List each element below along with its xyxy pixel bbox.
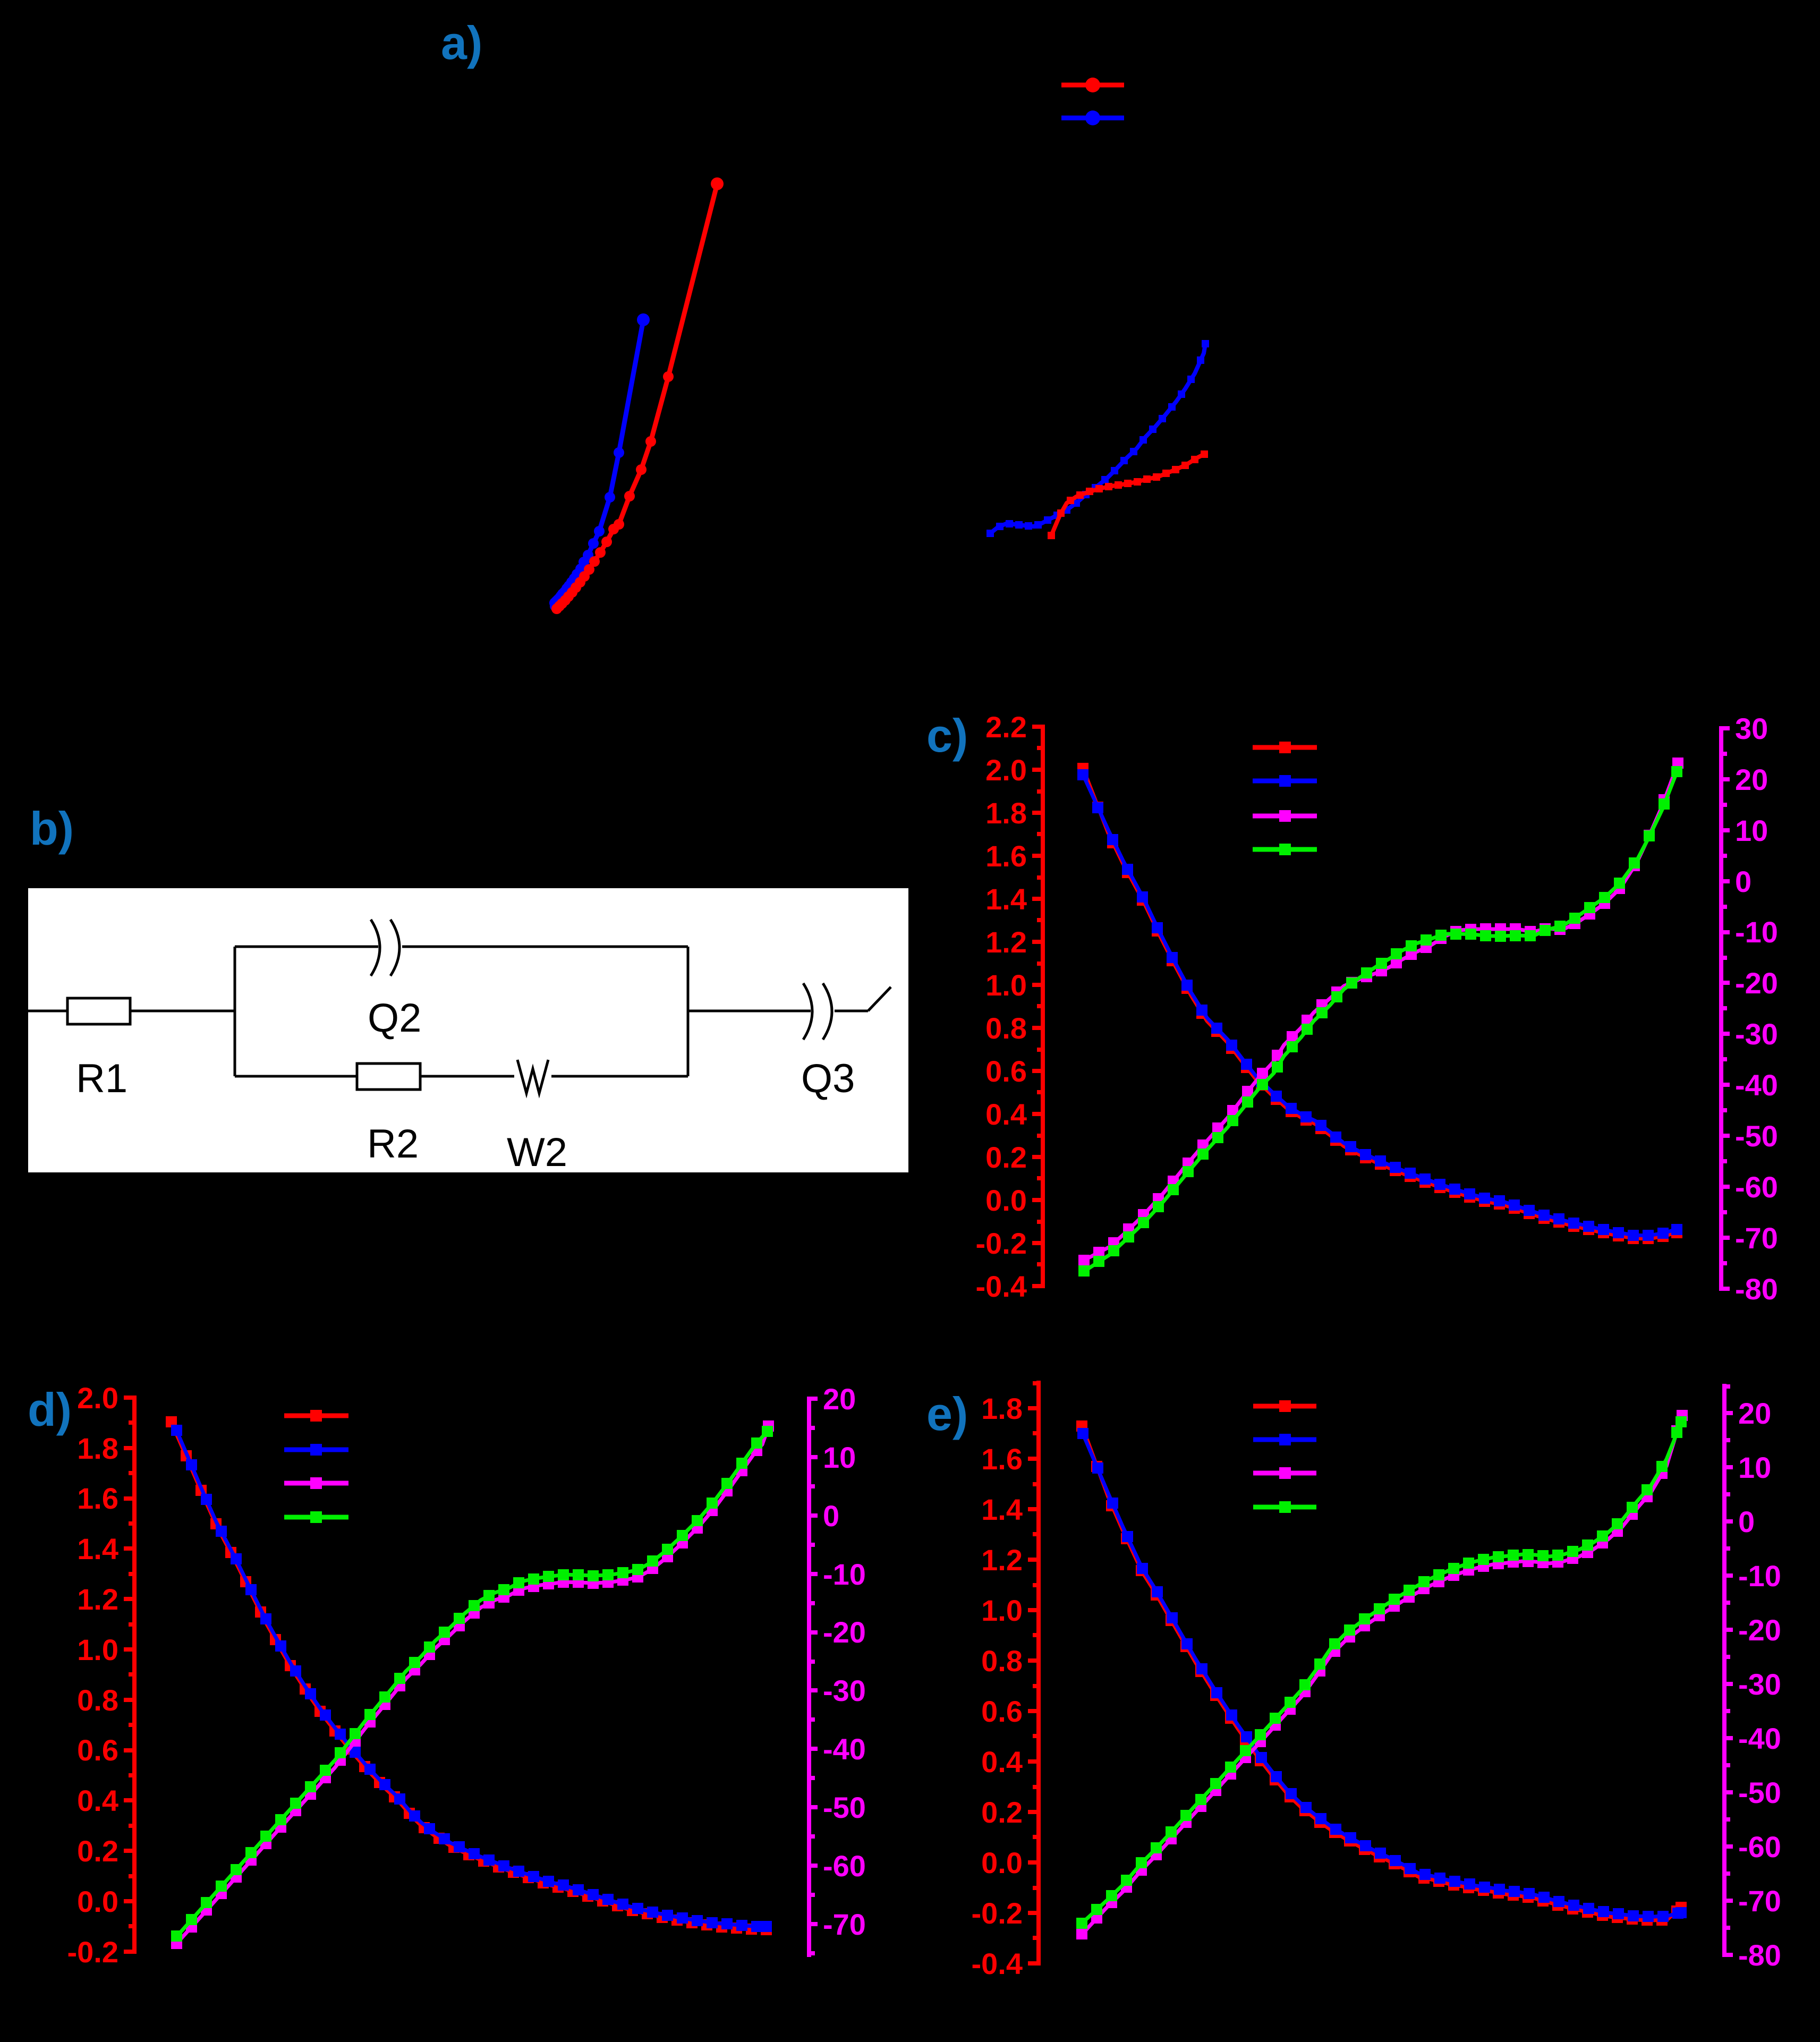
svg-text:1.2: 1.2 (985, 925, 1027, 959)
Warburg W2 symbol (517, 1060, 548, 1093)
svg-text:-30: -30 (1738, 1667, 1781, 1701)
panel d legend (284, 1410, 348, 1422)
svg-text:c): c) (926, 709, 968, 762)
svg-text:-0.4: -0.4 (976, 1270, 1027, 1303)
svg-text:-70: -70 (1735, 1221, 1778, 1255)
svg-text:0.8: 0.8 (77, 1683, 118, 1717)
wire W2 to right junction (551, 1075, 688, 1078)
svg-text:-20: -20 (1735, 966, 1778, 1000)
svg-text:Q3: Q3 (801, 1056, 855, 1101)
svg-text:-20: -20 (823, 1615, 866, 1649)
panel a right plot: blue curve (986, 340, 1209, 537)
svg-text:0.6: 0.6 (77, 1733, 118, 1767)
svg-text:0.6: 0.6 (981, 1695, 1023, 1728)
svg-text:1.4: 1.4 (981, 1493, 1023, 1526)
svg-text:10: 10 (1738, 1451, 1771, 1484)
svg-text:30: 30 (1735, 712, 1768, 745)
svg-text:W2: W2 (507, 1130, 567, 1175)
svg-text:-0.2: -0.2 (976, 1227, 1027, 1260)
svg-text:0: 0 (823, 1499, 839, 1533)
svg-text:20: 20 (1735, 763, 1768, 796)
wire right junction to Q3 (688, 1010, 811, 1013)
svg-text:e): e) (926, 1388, 968, 1440)
svg-text:-50: -50 (1735, 1119, 1778, 1153)
svg-text:-60: -60 (1738, 1830, 1781, 1864)
panel d magenta curve (dV/dQ) (171, 1420, 774, 1949)
label R1 (76, 1056, 127, 1101)
circuit white background box (28, 888, 908, 1172)
svg-text:a): a) (441, 16, 482, 69)
svg-text:0.4: 0.4 (77, 1784, 118, 1817)
svg-text:-0.4: -0.4 (972, 1947, 1023, 1980)
svg-text:-50: -50 (823, 1791, 866, 1824)
svg-text:1.4: 1.4 (985, 882, 1027, 916)
svg-text:20: 20 (823, 1382, 856, 1416)
panel e legend (1253, 1400, 1316, 1412)
panel c red curve (discharge) (1077, 763, 1682, 1244)
panel e red curve (discharge) (1076, 1420, 1687, 1926)
label Q3 (801, 1056, 855, 1101)
node: right vertical junction of parallel branch (687, 947, 690, 1076)
svg-text:1.8: 1.8 (981, 1392, 1023, 1425)
svg-text:-20: -20 (1738, 1613, 1781, 1647)
panel d blue curve (discharge) (171, 1425, 772, 1932)
svg-text:0: 0 (1735, 865, 1751, 898)
svg-text:-40: -40 (1738, 1722, 1781, 1755)
panel c legend (1253, 742, 1317, 753)
svg-text:-80: -80 (1735, 1272, 1778, 1306)
panel a left plot: blue curve end marker (637, 313, 650, 326)
svg-text:b): b) (30, 802, 74, 855)
svg-text:-30: -30 (1735, 1017, 1778, 1051)
svg-text:1.2: 1.2 (77, 1582, 118, 1616)
svg-text:1.2: 1.2 (981, 1543, 1023, 1577)
svg-text:1.0: 1.0 (985, 968, 1027, 1002)
panel d right axis (magenta) (809, 1382, 866, 1957)
svg-text:1.6: 1.6 (981, 1442, 1023, 1476)
svg-text:-40: -40 (823, 1732, 866, 1766)
panel e left axis (red) (972, 1381, 1039, 1980)
svg-text:-0.2: -0.2 (67, 1935, 119, 1969)
svg-text:2.0: 2.0 (77, 1381, 118, 1415)
svg-text:10: 10 (823, 1441, 856, 1474)
svg-text:0.8: 0.8 (981, 1644, 1023, 1678)
CPE Q2 symbol (371, 920, 399, 976)
label W2 (507, 1130, 567, 1175)
label R2 (367, 1121, 419, 1167)
svg-text:0.8: 0.8 (985, 1011, 1027, 1045)
svg-text:1.4: 1.4 (77, 1532, 118, 1565)
panel e right axis (magenta) (1724, 1384, 1781, 1972)
panel a left plot: red curve (551, 178, 722, 614)
svg-text:20: 20 (1738, 1397, 1771, 1430)
svg-text:-0.2: -0.2 (972, 1896, 1023, 1930)
svg-text:1.0: 1.0 (77, 1633, 118, 1666)
svg-text:0: 0 (1738, 1505, 1755, 1538)
svg-text:0.2: 0.2 (985, 1141, 1027, 1174)
svg-text:-40: -40 (1735, 1068, 1778, 1102)
svg-text:0.0: 0.0 (981, 1846, 1023, 1879)
svg-text:-50: -50 (1738, 1776, 1781, 1809)
panel d green curve (dV/dQ) (171, 1426, 773, 1942)
panel a right plot: red curve (1048, 450, 1208, 539)
panel a left plot: red curve end marker (711, 177, 724, 190)
panel e green curve (dV/dQ) (1076, 1416, 1687, 1929)
svg-text:-10: -10 (823, 1558, 866, 1591)
svg-text:0.0: 0.0 (985, 1184, 1027, 1217)
svg-text:R1: R1 (76, 1056, 127, 1101)
wire R2 to W2 (420, 1075, 514, 1078)
panel a left plot: blue curve (549, 314, 649, 611)
svg-text:10: 10 (1735, 814, 1768, 847)
svg-text:0.2: 0.2 (981, 1796, 1023, 1829)
svg-text:-10: -10 (1738, 1559, 1781, 1593)
panel d red curve (discharge) (166, 1416, 772, 1935)
node: left vertical junction of parallel branch (234, 947, 236, 1076)
wire Q3 to switch (835, 1010, 868, 1013)
svg-text:0.0: 0.0 (77, 1885, 118, 1918)
svg-text:-10: -10 (1735, 915, 1778, 949)
panel c right axis (magenta) (1721, 712, 1778, 1306)
svg-text:0.4: 0.4 (981, 1745, 1023, 1779)
svg-text:2.2: 2.2 (985, 710, 1027, 744)
svg-text:1.8: 1.8 (77, 1432, 118, 1465)
svg-text:-60: -60 (823, 1849, 866, 1883)
resistor R2 (357, 1063, 420, 1090)
wire R1 to parallel node (130, 1010, 235, 1013)
svg-text:1.0: 1.0 (981, 1594, 1023, 1627)
wire from left edge to R1 (28, 1010, 67, 1013)
svg-text:-60: -60 (1735, 1170, 1778, 1204)
svg-text:-70: -70 (1738, 1884, 1781, 1918)
svg-text:-70: -70 (823, 1908, 866, 1941)
svg-text:2.0: 2.0 (985, 753, 1027, 787)
wire bottom branch left segment (235, 1075, 357, 1078)
label Q2 (368, 996, 421, 1041)
resistor R1 (67, 998, 130, 1024)
panel a legend (red/blue with circle markers) (1061, 78, 1124, 92)
svg-text:-30: -30 (823, 1674, 866, 1707)
panel c blue curve (discharge) (1077, 769, 1682, 1241)
svg-text:1.6: 1.6 (77, 1482, 118, 1515)
svg-text:d): d) (28, 1383, 72, 1436)
svg-text:0.6: 0.6 (985, 1054, 1027, 1088)
panel c green curve (dV/dQ) (1078, 766, 1682, 1277)
svg-text:1.8: 1.8 (985, 796, 1027, 830)
wire top branch left segment (235, 946, 378, 948)
panel c magenta curve (dV/dQ) (1078, 758, 1683, 1266)
panel e blue curve (discharge) (1077, 1428, 1687, 1922)
svg-text:0.2: 0.2 (77, 1834, 118, 1868)
svg-text:0.4: 0.4 (985, 1097, 1027, 1131)
wire top branch right segment (402, 946, 688, 948)
svg-text:-80: -80 (1738, 1938, 1781, 1972)
svg-text:1.6: 1.6 (985, 839, 1027, 873)
open terminal diagonal stroke (868, 987, 891, 1011)
svg-text:R2: R2 (367, 1121, 419, 1167)
panel d left axis (red) (67, 1381, 135, 1969)
panel e magenta curve (dV/dQ) (1076, 1410, 1688, 1939)
svg-text:Q2: Q2 (368, 996, 421, 1041)
CPE Q3 symbol (803, 983, 832, 1040)
panel c left axis (red) (976, 710, 1043, 1303)
